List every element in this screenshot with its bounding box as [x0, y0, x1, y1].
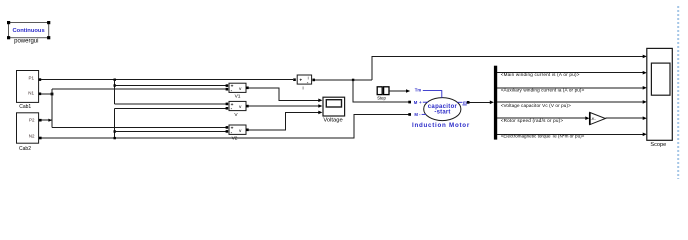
gain block -K- — [590, 112, 606, 124]
svg-text:powergui: powergui — [14, 39, 38, 45]
wire riser A (P1 down to V+ level) — [114, 80, 116, 104]
svg-text:m: m — [463, 100, 467, 105]
wire V1- — [52, 88, 226, 90]
wire P2 stub — [42, 119, 52, 121]
svg-text:<Electromagnetic torque Te (N*: <Electromagnetic torque Te (N*m or pu)> — [501, 133, 585, 138]
svg-text:Induction Motor: Induction Motor — [412, 122, 470, 129]
source subsystem Cab2 — [17, 113, 42, 152]
svg-text:+: + — [299, 79, 302, 84]
node P1-riser junction — [114, 79, 116, 81]
wire V- — [115, 107, 226, 109]
wire N1 stub — [41, 93, 52, 95]
svg-text:I: I — [302, 85, 303, 91]
wire riser x52 (N1 up to V1- and down to P2/V2+) — [51, 89, 53, 127]
source subsystem Cab1 — [17, 71, 42, 110]
svg-text:Scope: Scope — [650, 142, 666, 148]
wire V2 output to Voltage scope input 3 — [249, 112, 319, 129]
svg-text:N1: N1 — [28, 91, 34, 96]
svg-text:Tm: Tm — [415, 87, 422, 92]
svg-text:Cab1: Cab1 — [19, 104, 31, 110]
svg-text:M -: M - — [414, 112, 421, 117]
wire up to scope wire1 — [372, 56, 644, 79]
svg-text:Step: Step — [377, 96, 386, 101]
wire demux out 2 (Auxiliary winding current) — [497, 87, 643, 89]
svg-text:Cab2: Cab2 — [19, 146, 31, 152]
svg-text:V1: V1 — [235, 94, 241, 100]
wire N2 rail — [42, 114, 409, 138]
svg-text:Continuous: Continuous — [12, 28, 44, 34]
step block Step — [377, 87, 389, 101]
scope block Scope — [647, 48, 673, 148]
wire demux out 1 (Main winding current) — [497, 72, 643, 74]
svg-text:<Rotor speed (rad/s or pu)>: <Rotor speed (rad/s or pu)> — [501, 118, 564, 123]
voltage measurement V2 — [226, 125, 249, 141]
wire V1 output to Voltage scope input 1 — [249, 88, 319, 101]
current measurement I — [293, 75, 315, 91]
svg-text:i: i — [308, 75, 309, 80]
node V2- branch junction — [114, 130, 116, 132]
voltage measurement V1 — [226, 83, 249, 99]
wire V2- — [115, 130, 226, 132]
wire demux out 4 (Rotor speed) into gain — [497, 117, 586, 119]
wire demux out 5 (Electromagnetic torque) — [497, 133, 643, 135]
node N1 junction — [51, 93, 54, 96]
wire V+ — [115, 103, 226, 105]
svg-text:M +: M + — [414, 100, 422, 105]
wire V2+ — [52, 126, 226, 128]
wire P1 rail to current measurement — [41, 79, 293, 81]
demux bar — [494, 66, 497, 140]
svg-text:P2: P2 — [29, 118, 35, 123]
svg-text:<Voltage capacitor Vc (V or pu: <Voltage capacitor Vc (V or pu)> — [501, 103, 571, 108]
svg-text:V2: V2 — [232, 135, 238, 141]
svg-text:<Main winding current is (A or: <Main winding current is (A or pu)> — [501, 72, 580, 77]
induction motor block (Single Phase Asynchronous Machine) U_motor — [408, 87, 470, 129]
node M+ branch junction — [352, 79, 354, 81]
svg-text:N2: N2 — [29, 134, 35, 139]
wire V output to Voltage scope input 2 — [249, 105, 319, 107]
node V1+ branch junction — [114, 84, 116, 86]
wire M+ drop — [353, 80, 408, 102]
svg-text:Voltage: Voltage — [323, 117, 342, 123]
svg-text:<Auxiliary winding current ia: <Auxiliary winding current ia (A or pu)> — [501, 88, 585, 93]
wire gain to scope — [605, 117, 643, 119]
powergui block U_powergui — [7, 21, 50, 45]
wire Step to Tm — [389, 90, 407, 92]
wire V1+ — [115, 84, 226, 86]
page boundary dashed line — [677, 6, 679, 179]
wire riser B (N2 up to V-) — [114, 108, 116, 138]
node P2 junction arrow — [48, 119, 52, 122]
wire demux out 3 (Voltage capacitor) — [497, 101, 643, 103]
svg-text:-start: -start — [434, 110, 450, 116]
voltage measurement V — [226, 101, 249, 118]
wire m to demux — [470, 101, 491, 103]
scope block Voltage — [323, 97, 345, 123]
node riser B on N2 rail — [114, 137, 116, 139]
wire I output / M+ branch / to Scope input 1 — [315, 79, 372, 81]
svg-text:P1: P1 — [28, 76, 34, 81]
svg-text:-K-: -K- — [591, 116, 597, 121]
